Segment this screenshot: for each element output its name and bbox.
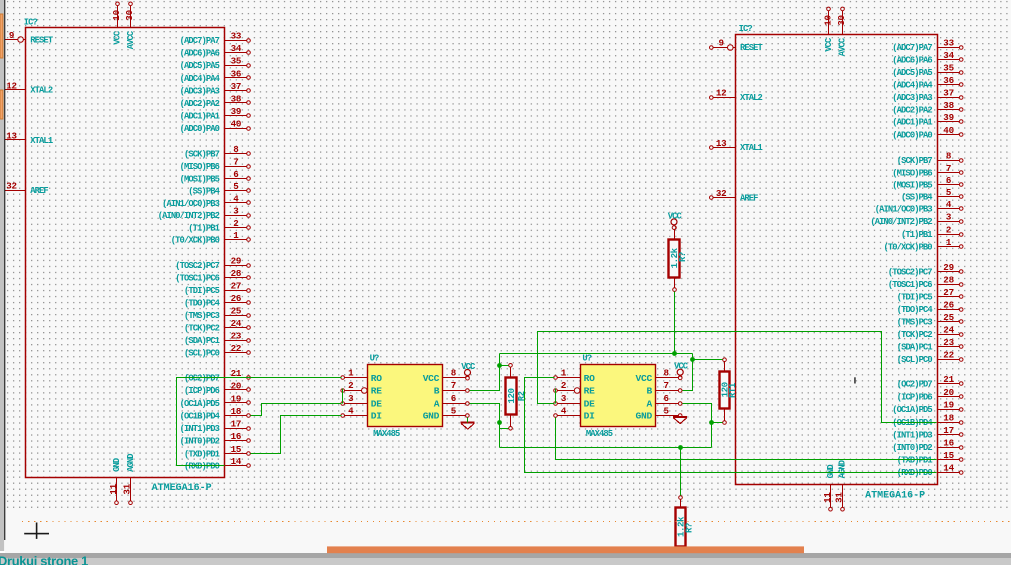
IC1 pin 15 (TXD)PD1 [184,444,250,460]
U1 pin 7 B [434,380,470,396]
U2 value label MAX485 [586,429,613,439]
svg-text:26: 26 [943,299,954,310]
svg-text:DI: DI [371,411,382,422]
IC1 pin 12 XTAL2 [5,80,53,95]
svg-text:18: 18 [943,412,954,423]
transceiver U1 MAX485 body [368,365,443,427]
svg-text:XTAL1: XTAL1 [740,143,763,153]
svg-text:(ADC4)PA4: (ADC4)PA4 [892,80,933,90]
svg-text:(TXD)PD1: (TXD)PD1 [184,449,220,459]
resistor R2 value 120 [506,364,527,431]
svg-text:(TOSC2)PC7: (TOSC2)PC7 [888,267,932,277]
svg-text:(ADC0)PA0: (ADC0)PA0 [180,124,220,134]
svg-text:(ADC2)PA2: (ADC2)PA2 [180,99,220,109]
svg-text:31: 31 [833,492,844,503]
IC2 pin 13 XTAL1 [710,138,763,153]
status text [0,554,88,569]
svg-text:19: 19 [231,393,242,404]
svg-text:GND: GND [636,411,653,422]
IC2 pin 35 (ADC5)PA5 [892,63,963,79]
svg-text:10: 10 [111,10,122,21]
svg-text:(MOSI)PB5: (MOSI)PB5 [180,174,220,184]
svg-text:AVCC: AVCC [126,30,136,49]
svg-text:(RXD)PD0: (RXD)PD0 [184,462,220,472]
IC1 pin 13 XTAL1 [5,131,53,146]
IC2 pin 40 (ADC0)PA0 [892,125,963,141]
IC2 pin 28 (TOSC1)PC6 [888,274,963,290]
svg-text:RESET: RESET [30,35,54,45]
svg-text:29: 29 [231,255,242,266]
svg-text:3: 3 [348,393,354,404]
IC2 pin 38 (ADC2)PA2 [892,100,963,116]
U2 name label U? [582,354,591,364]
svg-text:25: 25 [943,312,954,323]
wire net DE2-PD4 (U2.DE to IC2 pin18) [538,332,937,423]
IC2 value label ATMEGA16-P [865,491,925,502]
IC2 pin 33 (ADC7)PA7 [892,38,963,54]
svg-text:11: 11 [108,483,119,494]
svg-text:(OC1A)PD5: (OC1A)PD5 [892,405,932,415]
IC IC1 ATMEGA16-P body [26,28,225,478]
svg-text:RO: RO [584,373,595,384]
svg-text:RESET: RESET [740,43,764,53]
svg-text:VCC: VCC [668,211,683,221]
IC1 pin 29 (TOSC2)PC7 [175,255,250,271]
svg-text:23: 23 [231,330,242,341]
svg-text:(INT0)PD2: (INT0)PD2 [180,437,220,447]
IC1 pin 28 (TOSC1)PC6 [175,268,250,284]
svg-text:29: 29 [943,262,954,273]
svg-text:(ICP)PD6: (ICP)PD6 [184,386,220,396]
svg-text:XTAL2: XTAL2 [740,93,763,103]
svg-text:(ADC4)PA4: (ADC4)PA4 [180,74,221,84]
svg-text:7: 7 [664,380,669,391]
IC2 pin 34 (ADC6)PA6 [892,50,963,66]
IC2 pin 4 (AIN1/OC0)PB3 [875,199,963,215]
IC1 pin 22 (SCL)PC0 [184,343,250,359]
svg-text:1: 1 [348,368,354,379]
svg-text:8: 8 [233,144,239,155]
svg-text:14: 14 [231,456,242,467]
IC1 pin 27 (TDI)PC5 [184,280,250,296]
IC1 pin 21 (OC2)PD7 [184,368,250,384]
IC1 pin 25 (TMS)PC3 [184,305,250,321]
svg-text:2: 2 [348,380,353,391]
wire net A: up to U2.A [683,404,712,448]
junction J1 [497,363,502,368]
svg-text:(SS)PB4: (SS)PB4 [188,187,220,197]
svg-text:28: 28 [231,268,242,279]
U2 pin 7 B [647,380,683,396]
svg-text:8: 8 [451,368,457,379]
IC2 pin 30 AVCC (top) [836,7,848,56]
svg-text:4: 4 [348,405,354,416]
svg-text:22: 22 [231,343,242,354]
IC1 name label IC? [24,18,38,28]
svg-text:GND: GND [423,411,440,422]
svg-text:(ADC3)PA3: (ADC3)PA3 [180,86,220,96]
svg-text:39: 39 [943,112,954,123]
IC2 pin 2 (T1)PB1 [901,225,963,241]
wire net RE1-DE1 tie [342,389,344,404]
svg-text:14: 14 [943,463,954,474]
svg-text:12: 12 [6,80,17,91]
svg-text:U?: U? [370,354,379,364]
svg-text:23: 23 [943,337,954,348]
IC1 pin 37 (ADC3)PA3 [180,81,251,97]
svg-text:9: 9 [9,30,14,41]
IC2 pin 9 RESET [710,38,764,53]
svg-text:5: 5 [664,405,670,416]
sheet frame bottom edge (orange dotted) [22,521,1011,523]
U2 pin 2 RE [554,380,595,396]
svg-text:8: 8 [664,368,670,379]
svg-text:11: 11 [822,492,833,503]
IC1 pin 32 AREF [5,181,48,196]
resistor R? (top bias) value 1.2k [669,226,688,292]
svg-text:(OC1B)PD4: (OC1B)PD4 [180,411,221,421]
text cursor mark [854,377,855,383]
IC1 pin 4 (AIN1/OC0)PB3 [162,193,250,209]
U1 name label U? [370,354,379,364]
VCC symbol at U1 pin8 [461,362,476,380]
svg-text:27: 27 [231,280,242,291]
wire net B: R? bias drop [674,292,676,354]
svg-text:9: 9 [719,38,724,49]
svg-text:7: 7 [946,163,951,174]
svg-text:24: 24 [943,324,954,335]
IC1 pin 20 (ICP)PD6 [184,380,250,396]
svg-text:35: 35 [943,63,954,74]
svg-text:(TCK)PC2: (TCK)PC2 [897,330,933,340]
svg-text:37: 37 [231,81,242,92]
svg-text:Drukuj strone 1: Drukuj strone 1 [0,554,88,566]
svg-text:33: 33 [943,38,954,49]
left strip orange mark 2 [0,90,3,119]
svg-text:(TOSC1)PC6: (TOSC1)PC6 [175,273,219,283]
IC1 pin 14 (RXD)PD0 [184,456,250,472]
VCC symbol at R? top [668,211,683,229]
IC2 pin 5 (SS)PB4 [901,187,963,203]
wire net TXD1-DI1 (IC1 pin15 to U1.DI) [251,416,342,454]
U2 pin 6 A [647,393,683,409]
svg-text:(OC1A)PD5: (OC1A)PD5 [180,399,220,409]
svg-text:32: 32 [6,181,17,192]
svg-text:7: 7 [451,380,456,391]
svg-text:AREF: AREF [30,186,48,196]
svg-text:(AIN1/OC0)PB3: (AIN1/OC0)PB3 [875,204,933,214]
IC1 pin 35 (ADC5)PA5 [180,56,251,71]
svg-text:4: 4 [946,199,952,210]
svg-text:(MISO)PB6: (MISO)PB6 [892,168,932,178]
svg-text:4: 4 [561,405,567,416]
IC1 pin 18 (OC1B)PD4 [180,406,251,422]
svg-text:(SCK)PB7: (SCK)PB7 [184,150,220,160]
U2 pin 1 RO [554,368,595,384]
IC1 pin 11 GND (bottom) [108,458,122,504]
U2 pin 4 DI [554,405,595,421]
svg-text:XTAL2: XTAL2 [30,86,53,96]
bottom chrome bands [0,553,1011,565]
left strip orange mark 1 [0,14,3,58]
svg-text:17: 17 [943,425,954,436]
U2 pin 5 GND [636,405,683,421]
svg-text:RE: RE [584,386,595,397]
svg-text:5: 5 [451,405,457,416]
svg-text:DI: DI [584,411,595,422]
svg-text:40: 40 [231,118,242,129]
IC2 pin 16 (INT0)PD2 [892,438,963,454]
IC2 pin 32 AREF [710,188,759,203]
IC2 pin 36 (ADC4)PA4 [892,75,963,91]
svg-text:3: 3 [561,393,567,404]
svg-text:(ADC6)PA6: (ADC6)PA6 [180,49,220,59]
svg-text:(TDI)PC5: (TDI)PC5 [897,292,933,302]
junction J4 [690,357,695,362]
wire net PD4-DE1 (IC1 pin18 to U1.DE) [251,404,342,416]
U1 pin 1 RO [341,368,382,384]
U1 pin 6 A [434,393,470,409]
svg-text:5: 5 [946,187,952,198]
crosshair cursor [24,523,49,539]
svg-text:GND: GND [826,465,836,479]
svg-text:B: B [647,386,653,397]
svg-text:RT1: RT1 [728,383,738,398]
svg-text:DE: DE [371,398,382,409]
junction J3 [672,351,677,356]
svg-text:U?: U? [582,354,591,364]
wire net B: stub to R2 top [500,365,509,367]
svg-text:R2: R2 [517,391,527,401]
svg-text:(ADC1)PA1: (ADC1)PA1 [892,118,932,128]
IC1 pin 17 (INT1)PD3 [180,419,251,435]
svg-text:(ICP)PD6: (ICP)PD6 [897,392,933,402]
svg-text:(TOSC2)PC7: (TOSC2)PC7 [175,261,219,271]
VCC symbol at U2 pin8 [674,362,689,380]
svg-text:34: 34 [231,43,242,54]
svg-text:RE: RE [371,386,382,397]
U2 pin 3 DE [554,393,595,409]
IC2 pin 39 (ADC1)PA1 [892,112,963,128]
wire net A: stub to R2 bottom [500,428,509,430]
svg-text:(AIN1/OC0)PB3: (AIN1/OC0)PB3 [162,199,220,209]
svg-text:35: 35 [231,56,242,67]
svg-text:20: 20 [231,380,242,391]
GND symbol at U2 pin5 [673,417,687,424]
IC2 name label IC? [739,24,753,34]
svg-text:RO: RO [371,373,382,384]
svg-text:DE: DE [584,398,595,409]
IC1 pin 30 AVCC (top) [124,2,136,49]
IC2 pin 15 (TXD)PD1 [897,450,963,466]
wire net RO2-RXD2 (U2.RO to IC2 pin14) [525,378,937,473]
IC1 pin 6 (MOSI)PB5 [180,169,251,185]
IC2 pin 24 (TCK)PC2 [897,324,963,340]
svg-text:(TMS)PC3: (TMS)PC3 [897,317,933,327]
svg-text:ATMEGA16-P: ATMEGA16-P [865,491,925,502]
IC2 pin 18 (OC1B)PD4 [892,412,963,428]
svg-text:25: 25 [231,305,242,316]
wire net A: bus to right [500,447,712,449]
svg-text:38: 38 [231,93,242,104]
U2 pin 8 VCC [636,368,683,384]
junction J2 [497,420,502,425]
orange scrollbar thumb [327,546,804,553]
IC1 pin 16 (INT0)PD2 [180,431,251,447]
svg-text:(SCK)PB7: (SCK)PB7 [897,156,933,166]
svg-text:(ADC2)PA2: (ADC2)PA2 [892,105,932,115]
svg-text:8: 8 [946,151,952,162]
U1 pin 4 DI [341,405,382,421]
IC2 pin 37 (ADC3)PA3 [892,88,963,104]
svg-text:3: 3 [233,206,239,217]
svg-text:39: 39 [231,106,242,117]
svg-text:15: 15 [943,450,954,461]
IC1 pin 10 VCC (top) [111,2,123,45]
IC1 pin 40 (ADC0)PA0 [180,118,251,133]
IC2 pin 8 (SCK)PB7 [897,151,963,167]
resistor RT1 value 120 [720,358,739,424]
svg-text:AGND: AGND [838,460,848,478]
IC1 pin 8 (SCK)PB7 [184,144,250,160]
IC2 pin 21 (OC2)PD7 [897,374,963,390]
IC2 pin 22 (SCL)PC0 [897,349,963,365]
svg-text:6: 6 [946,175,951,186]
svg-text:(ADC5)PA5: (ADC5)PA5 [180,61,220,71]
svg-text:VCC: VCC [461,362,476,372]
svg-text:XTAL1: XTAL1 [30,136,53,146]
IC1 pin 36 (ADC4)PA4 [180,68,251,84]
svg-text:(OC2)PD7: (OC2)PD7 [184,373,220,383]
IC1 pin 9 RESET [5,30,54,45]
IC2 pin 6 (MOSI)PB5 [892,175,963,191]
junction J5 [709,420,714,425]
IC2 pin 27 (TDI)PC5 [897,287,963,303]
svg-text:GND: GND [112,458,122,472]
wire net GND stub at U1 pin5 [467,418,469,423]
IC IC2 ATMEGA16-P body [736,35,938,485]
svg-text:5: 5 [233,181,239,192]
wire net TXD2-DI2 (IC2 pin15 to U2.DI) [556,418,937,460]
svg-text:37: 37 [943,88,954,99]
IC1 pin 3 (AIN0/INT2)PB2 [158,206,251,222]
IC1 pin 24 (TCK)PC2 [184,318,250,334]
IC2 pin 12 XTAL2 [710,88,763,103]
U1 pin 5 GND [423,405,470,421]
svg-text:(MISO)PB6: (MISO)PB6 [180,162,220,172]
IC1 pin 39 (ADC1)PA1 [180,106,251,122]
wire net A: U1.A to junction [470,404,500,448]
svg-text:12: 12 [716,88,727,99]
IC1 value label ATMEGA16-P [152,483,212,494]
svg-text:R?: R? [678,252,688,262]
svg-text:(SDA)PC1: (SDA)PC1 [184,336,220,346]
GND symbol at U1 pin5 [461,422,475,429]
IC1 pin 38 (ADC2)PA2 [180,93,251,109]
svg-text:34: 34 [943,50,954,61]
svg-text:2: 2 [561,380,566,391]
IC2 pin 20 (ICP)PD6 [897,387,963,403]
svg-text:(ADC7)PA7: (ADC7)PA7 [180,36,220,46]
svg-text:1: 1 [233,230,239,241]
svg-text:17: 17 [231,419,242,430]
svg-text:(ADC7)PA7: (ADC7)PA7 [892,43,932,53]
svg-text:120: 120 [506,389,517,404]
svg-text:31: 31 [122,483,133,494]
IC1 pin 31 AGND (bottom) [122,454,136,505]
svg-text:38: 38 [943,100,954,111]
svg-text:A: A [434,398,440,409]
svg-text:VCC: VCC [674,362,689,372]
IC2 pin 31 AGND (bottom) [833,460,847,511]
svg-text:VCC: VCC [636,373,653,384]
svg-text:(AIN0/INT2)PB2: (AIN0/INT2)PB2 [158,211,220,221]
IC1 pin 7 (MISO)PB6 [180,157,251,173]
IC1 pin 2 (T1)PB1 [188,218,250,234]
svg-text:B: B [434,386,440,397]
transceiver U2 MAX485 body [581,365,656,427]
IC2 pin 23 (SDA)PC1 [897,337,963,353]
svg-text:36: 36 [231,68,242,79]
svg-text:6: 6 [451,393,456,404]
svg-text:(SCL)PC0: (SCL)PC0 [184,348,220,358]
svg-text:6: 6 [233,169,238,180]
svg-text:21: 21 [943,374,954,385]
svg-text:(ADC5)PA5: (ADC5)PA5 [892,68,932,78]
IC2 pin 26 (TDO)PC4 [897,299,963,315]
IC2 pin 3 (AIN0/INT2)PB2 [870,212,963,228]
svg-text:13: 13 [6,131,17,142]
U1 pin 2 RE [341,380,382,396]
left window border strip [0,0,5,551]
IC2 pin 17 (INT1)PD3 [892,425,963,441]
U1 pin 8 VCC [423,368,470,384]
svg-text:(TDI)PC5: (TDI)PC5 [184,286,220,296]
IC2 pin 10 VCC (top) [823,7,835,52]
svg-text:6: 6 [664,393,669,404]
IC1 pin 26 (TDO)PC4 [184,293,250,309]
svg-text:27: 27 [943,287,954,298]
svg-text:VCC: VCC [113,30,123,45]
junction J6 [678,445,683,450]
wire net B: bus to right [500,353,693,355]
svg-text:(TOSC1)PC6: (TOSC1)PC6 [888,280,932,290]
resistor R? (bottom bias) value 1.2k [675,496,694,551]
svg-text:7: 7 [233,157,238,168]
svg-text:R?: R? [685,523,695,533]
svg-text:A: A [647,398,653,409]
svg-text:(MOSI)PB5: (MOSI)PB5 [892,181,932,191]
wire net A: R? bias drop [680,448,682,496]
svg-text:(ADC3)PA3: (ADC3)PA3 [892,93,932,103]
IC1 pin 23 (SDA)PC1 [184,330,250,346]
IC2 pin 7 (MISO)PB6 [892,163,963,179]
svg-text:(T0/XCK)PB0: (T0/XCK)PB0 [884,242,933,252]
svg-text:(T1)PB1: (T1)PB1 [188,223,219,233]
svg-text:10: 10 [823,15,834,26]
wire net B: U1.B to junction [470,354,500,391]
svg-text:(TXD)PD1: (TXD)PD1 [897,455,933,465]
svg-text:30: 30 [124,10,135,21]
svg-text:1: 1 [561,368,567,379]
svg-text:24: 24 [231,318,242,329]
IC1 pin 33 (ADC7)PA7 [180,31,251,47]
IC1 pin 19 (OC1A)PD5 [180,393,251,409]
svg-text:40: 40 [943,125,954,136]
svg-text:MAX485: MAX485 [373,429,400,439]
svg-text:22: 22 [943,349,954,360]
svg-text:(TDO)PC4: (TDO)PC4 [184,298,221,308]
